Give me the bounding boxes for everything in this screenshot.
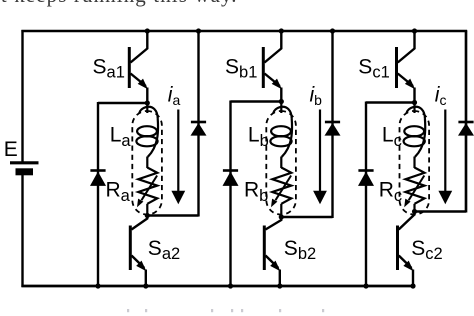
cut-off text line at top of figure: [0, 0, 474, 8]
battery E positive plate: [10, 161, 39, 164]
junction dot bottom rail at left branch b: [228, 283, 233, 288]
wire right diode leg a vertical: [197, 31, 199, 217]
diode Db2 (left freewheel): [223, 171, 239, 186]
node c lower junction dot: [412, 209, 417, 214]
svg-text:Sc1: Sc1: [358, 56, 389, 82]
wire mid node b horizontal: [231, 100, 282, 102]
dashed box around L_a and R_a: [132, 111, 162, 215]
wire lower node b to right diode leg: [281, 216, 332, 218]
diode Dc1 (upper freewheel): [458, 122, 474, 136]
node b lower junction dot: [279, 214, 284, 219]
svg-text:Sa1: Sa1: [93, 56, 125, 82]
node b mid junction dot: [279, 99, 284, 104]
inductor L_c coil: [404, 103, 426, 169]
svg-text:Sb2: Sb2: [284, 237, 316, 263]
bottom rail (negative DC bus): [21, 285, 415, 288]
junction dot bottom rail at S_c2 emitter: [410, 283, 415, 288]
current arrow i_a: [171, 110, 185, 205]
top rail (positive DC bus): [21, 30, 467, 33]
junction dot top rail at S_c1 leg: [412, 28, 417, 33]
faint cut-off caption glyph tops at bottom edge: [127, 309, 129, 312]
svg-text:ia: ia: [168, 84, 181, 109]
battery E negative plate: [16, 168, 34, 175]
svg-text:ib: ib: [310, 84, 323, 109]
wire left branch c vertical: [365, 102, 367, 287]
diode Db1 (upper freewheel): [325, 122, 341, 136]
diode Dc2 (left freewheel): [358, 171, 374, 186]
svg-text:Sa2: Sa2: [148, 237, 180, 263]
transistor S_a1 (upper IGBT/BJT): [129, 31, 148, 103]
resistor R_c (adjustable, zigzag with arrow): [406, 168, 425, 212]
svg-text:Rb: Rb: [244, 179, 268, 206]
wire left branch b vertical: [229, 101, 231, 287]
svg-text:La: La: [110, 124, 132, 151]
diode Da2 (left freewheel): [90, 171, 106, 186]
inductor L_b coil: [270, 102, 292, 169]
wire left edge lower (battery to bottom rail): [21, 175, 23, 287]
svg-text:E: E: [4, 138, 18, 161]
junction dot bottom rail at S_a2 emitter: [143, 283, 148, 288]
junction dot bottom rail at S_b2 emitter: [277, 283, 282, 288]
wire right edge (top rail down to phase c lower wire): [465, 30, 467, 213]
node c mid junction dot: [412, 100, 417, 105]
wire lower node c to right diode leg: [415, 210, 467, 212]
junction dot bottom rail at left branch c: [363, 283, 368, 288]
transistor S_b2 (lower IGBT/BJT): [264, 217, 281, 286]
resistor R_a (adjustable, zigzag with arrow): [138, 168, 157, 216]
current arrow i_b: [313, 110, 327, 205]
svg-text:Ra: Ra: [106, 179, 131, 206]
current arrow i_c: [438, 110, 452, 205]
junction dot bottom rail at left branch a: [95, 283, 100, 288]
wire right diode leg b vertical: [331, 31, 333, 218]
diode Da1 (upper freewheel): [191, 122, 207, 136]
wire lower node a to right diode leg: [147, 214, 198, 216]
node a lower junction dot: [145, 213, 150, 218]
junction dot top rail at S_b1 leg: [279, 28, 284, 33]
transistor S_a2 (lower IGBT/BJT): [130, 216, 147, 287]
wire mid node a horizontal: [98, 102, 147, 104]
wire left branch a vertical: [97, 102, 99, 286]
svg-text:Sc2: Sc2: [411, 237, 442, 263]
svg-text:Sb1: Sb1: [225, 56, 257, 82]
junction dot top rail at diode leg b: [330, 28, 335, 33]
dashed box around L_c and R_c: [400, 111, 430, 215]
wire right diode leg c vertical: [465, 31, 467, 213]
resistor R_b (adjustable, zigzag with arrow): [272, 168, 291, 218]
svg-text:ic: ic: [435, 84, 447, 109]
inductor L_a coil: [136, 103, 158, 168]
transistor S_c2 (lower IGBT/BJT): [398, 212, 415, 287]
transistor S_c1 (upper IGBT/BJT): [397, 31, 416, 103]
wire left edge upper (battery to top rail): [21, 30, 23, 162]
dashed box around L_b and R_b: [266, 111, 296, 215]
wire mid node c horizontal: [366, 101, 415, 103]
node a mid junction dot: [145, 100, 150, 105]
junction dot top rail at diode leg a: [196, 28, 201, 33]
junction dot top rail at S_a1 leg: [145, 28, 150, 33]
transistor S_b1 (upper IGBT/BJT): [263, 31, 282, 102]
